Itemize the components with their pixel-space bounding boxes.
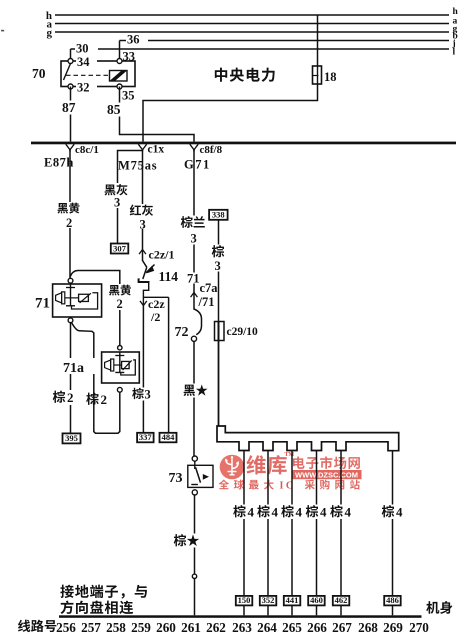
svg-text:I C: I C (280, 481, 294, 492)
horn 71 bottom terminal (68, 318, 73, 323)
svg-text:c2z/1: c2z/1 (149, 248, 175, 262)
fuse connector c29/10 (215, 322, 259, 341)
splice node on wire 261 (192, 574, 196, 578)
svg-text:4: 4 (345, 505, 352, 520)
wire relay 85 leg down, right to c8f/8 (106, 87, 194, 142)
wire c8f/8 down (brown/blue 3) (193, 150, 195, 306)
horn 71a label (62, 358, 95, 376)
svg-text:c2z: c2z (148, 297, 165, 311)
svg-text:2: 2 (101, 392, 108, 407)
svg-text:c29/10: c29/10 (227, 326, 259, 338)
wire c2z/2 down to 337 (brown 3) (142, 306, 144, 433)
svg-text:352: 352 (262, 595, 275, 605)
svg-text:262: 262 (206, 620, 226, 635)
svg-text:258: 258 (106, 620, 126, 635)
relay 70 contact (left) (64, 64, 110, 81)
svg-text:c7a: c7a (200, 281, 219, 295)
label 线路号 (track numbers) (18, 620, 56, 632)
horn plate switch 73 bottom terminal (192, 490, 197, 495)
label 红灰 3 (129, 204, 156, 232)
wire from fuse 18 down and left to c1x (143, 84, 318, 142)
svg-text:4: 4 (248, 505, 255, 520)
watermark 电子市场网 (293, 456, 360, 469)
wire switch output to 484 (168, 297, 170, 433)
ground point 484 (160, 432, 177, 442)
node E87h (44, 156, 74, 170)
svg-text:441: 441 (286, 595, 299, 605)
wire 72 to 73 (black) (193, 341, 195, 456)
label 棕2 棕2 (52, 390, 109, 407)
note 接地端子，与 方向盘相连 (60, 585, 147, 614)
svg-text:/2: /2 (150, 310, 160, 324)
branch wire to horn 71a (70, 271, 120, 346)
ground point 337 (137, 432, 154, 442)
svg-text:4: 4 (272, 505, 279, 520)
svg-text:267: 267 (332, 620, 352, 635)
track number row (56, 620, 429, 635)
wire c29/10 to ground comb (218, 341, 220, 427)
label 机身 (chassis) (426, 601, 452, 614)
top rail h (46, 7, 459, 22)
connection 338 (209, 210, 228, 220)
wire horn 71 to horn 71a (loop below) (72, 323, 120, 434)
svg-text:2: 2 (67, 390, 74, 405)
svg-text:85: 85 (107, 102, 121, 117)
connector c2z/2 (140, 297, 165, 324)
svg-text:266: 266 (307, 620, 327, 635)
svg-text:261: 261 (181, 620, 201, 635)
svg-text:73: 73 (169, 471, 183, 486)
svg-text:h: h (453, 7, 459, 17)
svg-text:36: 36 (127, 33, 140, 47)
top rail a (47, 17, 458, 31)
relay terminal 34 (68, 55, 97, 69)
horn 71 top terminal (68, 278, 73, 283)
svg-text:2: 2 (66, 216, 72, 230)
svg-text:c1x: c1x (148, 144, 165, 156)
connector c2z/1 (139, 248, 174, 262)
top rail 36 / b (120, 32, 458, 42)
wire 36 corner down to relay terminal 33 (120, 33, 149, 62)
scan speck (1, 30, 4, 32)
wire / ground point 441 (284, 451, 301, 616)
relay 70 coil (110, 71, 128, 82)
wire / ground point 460 (308, 451, 325, 616)
svg-text:35: 35 (122, 89, 135, 103)
svg-text:462: 462 (335, 595, 348, 605)
svg-text:c8c/1: c8c/1 (75, 144, 99, 156)
svg-text:4: 4 (296, 505, 303, 520)
svg-text:263: 263 (232, 620, 252, 635)
connector c1x (138, 144, 164, 156)
horn 71 (53, 284, 102, 317)
label 黑黄 2 (56, 202, 80, 230)
label 棕★ (173, 534, 204, 548)
svg-text:/71: /71 (198, 295, 215, 309)
svg-text:259: 259 (131, 620, 151, 635)
svg-text:3: 3 (114, 196, 120, 210)
svg-text:WWW.DZSC.COM: WWW.DZSC.COM (295, 470, 358, 479)
svg-text:71: 71 (35, 296, 50, 312)
ground point 307 (111, 243, 129, 253)
horn 71a (102, 352, 140, 383)
wire c8c/1 to horn 71 (black/yellow 2) (69, 150, 71, 278)
svg-text:g: g (47, 27, 53, 39)
svg-text:87: 87 (62, 100, 76, 115)
ground distribution comb (217, 426, 399, 451)
svg-text:33: 33 (123, 50, 136, 64)
svg-text:265: 265 (282, 620, 302, 635)
horn 71 label (35, 296, 50, 312)
svg-text:257: 257 (81, 620, 101, 635)
svg-text:70: 70 (32, 66, 46, 81)
wire c1x down (red/grey 3) (142, 150, 144, 261)
svg-text:264: 264 (257, 620, 277, 635)
ground point 395 (63, 433, 81, 443)
connector c8c/1 (66, 144, 99, 156)
watermark url box (292, 470, 362, 479)
svg-text:3: 3 (191, 232, 197, 246)
svg-text:4: 4 (320, 505, 327, 520)
wire 338 down (brown 3) (218, 220, 220, 322)
watermark logo circle (220, 455, 245, 480)
top rail 30 / j l (71, 39, 456, 58)
wire relay 87 leg down to bus (61, 87, 85, 142)
relay terminal 35 (117, 84, 135, 103)
relay terminal 32 (68, 81, 97, 95)
svg-text:484: 484 (162, 432, 176, 442)
labels 棕4 row (233, 505, 407, 520)
svg-text:c8f/8: c8f/8 (200, 144, 223, 156)
svg-text:395: 395 (65, 433, 78, 443)
wire 黑灰 3 branch from c1x to 307 (118, 151, 143, 244)
svg-text:71a: 71a (63, 361, 84, 376)
relay terminal 33 (117, 50, 135, 64)
svg-text:338: 338 (212, 210, 225, 220)
wire 30 corner down to relay terminal 34 (71, 42, 99, 62)
svg-text:260: 260 (156, 620, 176, 635)
svg-text:TM: TM (285, 452, 295, 458)
wire horn 71 to 395 (brown 2) (70, 323, 72, 434)
connector c8f/8 (190, 144, 223, 156)
svg-text:268: 268 (358, 620, 378, 635)
label 黑★ (183, 384, 209, 398)
label 棕 3 (211, 245, 225, 274)
svg-text:2: 2 (117, 297, 123, 311)
wire / ground point 352 (260, 451, 277, 616)
svg-text:32: 32 (77, 81, 90, 95)
watermark 全球最大IC采购网站 (219, 479, 360, 491)
horn switch 114 (139, 261, 179, 298)
svg-text:256: 256 (56, 620, 76, 635)
svg-text:30: 30 (76, 42, 89, 56)
svg-text:3: 3 (215, 259, 221, 273)
connector c7a/71 (187, 272, 219, 310)
中央电力 (central electrics) title (215, 68, 275, 82)
node G71 (184, 158, 211, 172)
svg-text:3: 3 (140, 218, 146, 232)
svg-text:307: 307 (113, 243, 127, 253)
wire 73 to chassis bus (brown) (194, 495, 196, 615)
svg-text:72: 72 (175, 325, 189, 340)
main bus bar (top) (31, 142, 456, 145)
svg-text:150: 150 (238, 595, 251, 605)
svg-text:M75as: M75as (118, 159, 157, 173)
svg-text:486: 486 (386, 595, 399, 605)
svg-text:270: 270 (409, 620, 429, 635)
wire / ground point 462 (333, 451, 350, 616)
chassis bus bar (bottom) (59, 615, 422, 618)
horn 71a bottom terminal (117, 387, 122, 392)
node M75as (118, 159, 157, 173)
relay 70 (61, 61, 135, 87)
svg-text:G71: G71 (184, 158, 211, 172)
svg-text:34: 34 (77, 55, 90, 69)
svg-text:460: 460 (310, 595, 323, 605)
watermark 维库 (246, 452, 294, 475)
svg-text:269: 269 (383, 620, 403, 635)
svg-text:4: 4 (396, 505, 403, 520)
horn plate switch 73 (169, 461, 214, 487)
horn 71a top terminal (118, 346, 122, 350)
connection 72 (S-bend and terminal) (175, 306, 202, 341)
wire / ground point 486 (384, 451, 401, 616)
fuse 18 (313, 66, 337, 84)
svg-text:18: 18 (324, 70, 337, 84)
fuse 18 feed wire from rail h (317, 15, 319, 66)
svg-text:337: 337 (139, 432, 153, 442)
label 黑黄 2 (horn 71a wire) (108, 284, 133, 311)
horn plate switch 73 top terminal (192, 456, 197, 461)
label 黑灰 3 (103, 183, 130, 210)
relay 70 label (32, 66, 46, 81)
wire / ground point 150 (236, 451, 253, 616)
label 棕兰 3 (180, 216, 207, 246)
svg-text:114: 114 (159, 269, 179, 284)
top rail g (47, 25, 458, 40)
svg-text:71: 71 (187, 272, 200, 286)
svg-text:3: 3 (145, 388, 151, 402)
svg-text:l: l (453, 48, 456, 58)
label 棕3 (131, 388, 152, 402)
